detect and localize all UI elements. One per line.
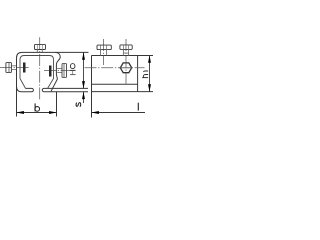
label s (path, rotated) bbox=[76, 103, 81, 107]
foot bottom line + s extension bbox=[44, 91, 88, 93]
bracket top outer edge + H0 top extension bbox=[22, 51, 89, 53]
left foot bottom bend bbox=[17, 86, 22, 92]
left top screw centerline bbox=[103, 39, 105, 65]
hex bolt head (side view) bbox=[120, 63, 131, 73]
s arrow up bbox=[82, 92, 85, 99]
right wall inner bbox=[48, 60, 54, 89]
right side bolt shank bbox=[57, 69, 62, 73]
right side bolt centerline bbox=[44, 70, 70, 72]
b arrow right bbox=[49, 111, 57, 114]
top inner edge bbox=[20, 56, 54, 61]
centerline vertical (left figure) bbox=[39, 37, 41, 100]
top screw head bbox=[35, 44, 46, 49]
b arrow left bbox=[16, 111, 24, 114]
left top screw shank bbox=[101, 50, 107, 56]
label h1 (paths) bbox=[142, 71, 148, 78]
left wall outer + b extension line bbox=[16, 58, 18, 117]
label l (path) bbox=[137, 103, 139, 111]
block bottom edge + h1 extension bbox=[92, 91, 154, 93]
block top edge + h1 top extension bbox=[92, 55, 154, 57]
left clamp pad (black) bbox=[23, 63, 26, 73]
l arrow left bbox=[91, 111, 99, 114]
H0 arrow up bbox=[82, 52, 85, 59]
label b (paths) bbox=[35, 103, 40, 111]
right top screw centerline bbox=[125, 39, 127, 84]
right wall outer with top-right corner bbox=[51, 52, 60, 91]
h1 arrow down bbox=[148, 84, 151, 91]
block left edge + l extension bbox=[91, 56, 93, 118]
right top screw shank bbox=[123, 49, 128, 55]
left side bolt centerline bbox=[0, 67, 30, 69]
hex bolt centerline bbox=[85, 67, 145, 69]
right clamp pad (black) bbox=[49, 66, 52, 77]
b right extension line bbox=[56, 92, 58, 117]
H0 arrow down bbox=[82, 81, 85, 88]
left side bolt head bbox=[6, 63, 11, 73]
right foot cap bbox=[42, 88, 44, 91]
block right edge bbox=[137, 56, 139, 92]
dimension H0 line bbox=[83, 52, 85, 88]
top screw shank bbox=[37, 50, 42, 53]
left side bolt shank bbox=[12, 66, 17, 70]
dimension s lower arrow line bbox=[83, 92, 85, 103]
left wall inner bbox=[20, 60, 26, 88]
left foot bbox=[22, 88, 34, 91]
hex centerline solid segment bbox=[119, 67, 133, 69]
dimension b line bbox=[17, 112, 57, 114]
top-left outer corner bbox=[17, 52, 23, 58]
right side bolt head bbox=[62, 64, 67, 78]
block inner line bbox=[92, 83, 138, 85]
dimension l line bbox=[92, 112, 146, 114]
h1 arrow up bbox=[148, 55, 151, 62]
foot top line + s extension bbox=[44, 87, 88, 89]
left top screw head bbox=[97, 45, 111, 50]
thread tick bbox=[123, 52, 128, 54]
label H0 (paths) bbox=[70, 64, 76, 75]
dimension h1 line bbox=[149, 56, 151, 92]
right top screw head bbox=[120, 45, 132, 50]
